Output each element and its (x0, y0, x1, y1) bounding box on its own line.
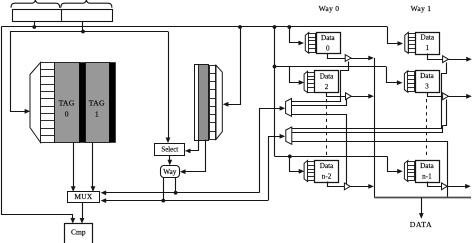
wire index field drop (81, 21, 85, 34)
tag array way 1 (86, 63, 110, 143)
wire enable data 3 (292, 100, 447, 133)
svg-text:TAG: TAG (59, 98, 75, 107)
ellipsis way 1 (426, 99, 428, 158)
tag decoder (30, 62, 41, 142)
wire enable data 0 (292, 62, 349, 102)
svg-text:0: 0 (326, 44, 330, 52)
svg-text:TAG: TAG (89, 98, 105, 107)
wire enable data 2 (292, 99, 347, 106)
svg-text:n-1: n-1 (422, 172, 432, 180)
tag array way 0 (55, 63, 80, 143)
wire enable data 1 (292, 63, 447, 129)
wire tag field drop (32, 21, 36, 29)
wire tag to comparator (2, 27, 76, 224)
wire index to data n-2 (290, 157, 305, 174)
wire data n-2 output (328, 182, 374, 190)
svg-text:2: 2 (325, 83, 329, 91)
wire index row 2 (275, 66, 387, 68)
wire index line horizontal (10, 31, 168, 33)
tag array way 1 status column (110, 63, 116, 143)
way-prediction wordlines (210, 66, 217, 140)
data array Data 1 (405, 32, 440, 54)
data array Data 0 (305, 33, 340, 54)
wire data n-1 output (428, 182, 471, 190)
label Way 0 (319, 4, 340, 13)
wire mux select lower (101, 177, 268, 203)
svg-text:1: 1 (95, 109, 99, 118)
way-prediction decoder (216, 65, 222, 139)
label DATA (410, 220, 433, 229)
svg-text:Data: Data (420, 162, 434, 170)
wire enable data n-1 (292, 142, 448, 187)
way-prediction table (195, 65, 209, 141)
tag array way 0 status column (80, 63, 86, 143)
address register (13, 9, 113, 21)
wire data 2 output (327, 93, 374, 100)
select logic Select (155, 144, 185, 156)
svg-text:Select: Select (161, 146, 178, 153)
comparator Cmp (65, 224, 93, 243)
wire index to tag decoder (11, 32, 31, 114)
wire mux to cmp (80, 203, 85, 224)
wire index to data 2 (290, 67, 305, 85)
driver way 1 enable (286, 127, 292, 144)
svg-text:Way: Way (163, 168, 176, 176)
over-brace tag field (11, 0, 60, 8)
wire tag1 to mux (91, 143, 96, 192)
wire enable data n-2 (292, 115, 347, 185)
svg-text:Data: Data (321, 34, 335, 42)
wire data 3 output (428, 93, 472, 100)
svg-text:Data: Data (420, 72, 434, 80)
svg-text:0: 0 (65, 109, 69, 118)
output bus way 0 vertical (374, 58, 376, 198)
svg-text:3: 3 (425, 83, 429, 91)
data array Data 3 (404, 71, 439, 93)
svg-text:Data: Data (421, 34, 435, 42)
wire mux select upper (101, 177, 260, 195)
wire tag line horizontal (2, 26, 388, 28)
svg-text:n-2: n-2 (322, 172, 332, 180)
wire way flag to driver 0 (260, 106, 286, 193)
wire prediction to select (185, 140, 199, 154)
data array Data 2 (304, 71, 338, 93)
wire select to way (167, 155, 172, 165)
wire prediction to way (180, 140, 206, 175)
wire data 1 output (428, 54, 472, 63)
svg-text:Way 1: Way 1 (411, 4, 432, 13)
label Way 1 (411, 4, 432, 13)
wire way flag to driver 1 (269, 134, 286, 201)
wire data n-1 to output bus (447, 186, 449, 197)
wire index to way-prediction decoder (223, 25, 242, 107)
wire data 0 output (328, 54, 374, 62)
mux MUX (68, 192, 100, 203)
wire index row n (275, 155, 388, 159)
output bus bottom (374, 197, 471, 199)
ellipsis way 0 (326, 99, 328, 158)
wire index to data 0 (287, 25, 304, 45)
wire tag0 to mux (71, 143, 76, 192)
data array Data n-1 (404, 161, 439, 183)
wire index to data n-1 (388, 157, 403, 174)
svg-text:Data: Data (320, 162, 334, 170)
wire index to data 3 (387, 67, 403, 86)
wire index to select (166, 32, 171, 144)
driver way 0 enable (286, 99, 292, 117)
svg-text:DATA: DATA (410, 220, 433, 229)
data array Data n-2 (304, 161, 338, 183)
svg-text:1: 1 (426, 44, 430, 52)
wire index column way0 (273, 25, 277, 156)
over-brace index field (61, 0, 112, 8)
svg-text:Way 0: Way 0 (319, 4, 340, 13)
way register Way (161, 166, 180, 178)
svg-text:Cmp: Cmp (71, 227, 86, 236)
wire data out (419, 198, 424, 219)
svg-text:Data: Data (320, 73, 334, 81)
svg-text:MUX: MUX (74, 192, 93, 201)
wire index to data 1 (top line end) (388, 27, 404, 46)
tag decoder wordlines (41, 63, 55, 143)
